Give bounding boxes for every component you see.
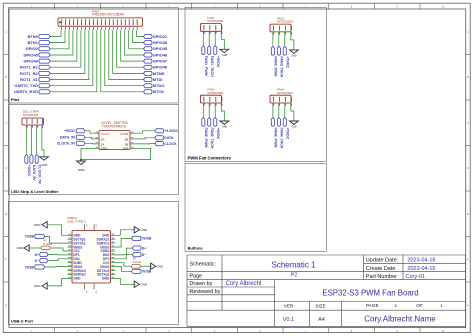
wire GND to R1 xyxy=(28,247,41,249)
pin number xyxy=(96,137,98,139)
svg-text:1: 1 xyxy=(440,303,443,308)
pin name (rotated) xyxy=(278,26,280,31)
svg-text:CLOCK_5V: CLOCK_5V xyxy=(37,165,41,185)
pin number xyxy=(61,27,63,30)
svg-text:B: B xyxy=(467,75,469,79)
pin number xyxy=(85,27,87,30)
label UART0_TXD xyxy=(39,84,50,88)
label CLOCK xyxy=(155,142,164,146)
pin number xyxy=(279,103,281,105)
pin SSRXn2 (left) xyxy=(68,270,73,272)
pin number xyxy=(273,103,275,105)
pin name (rotated) xyxy=(42,119,44,124)
pin stub xyxy=(272,32,274,35)
pin number xyxy=(203,103,205,105)
wire pin14 to MTMS xyxy=(113,30,144,73)
ground top-left xyxy=(42,222,47,228)
pin number xyxy=(215,32,217,34)
svg-text:2023-04-16: 2023-04-16 xyxy=(407,266,435,272)
label FAN4_PWM xyxy=(271,118,274,127)
pin SSRXp1 (right) xyxy=(111,238,116,240)
svg-text:G: G xyxy=(5,303,7,307)
svg-text:GND: GND xyxy=(140,283,148,287)
pin number xyxy=(31,125,33,127)
label GPIO45 xyxy=(39,53,50,57)
pin name (rotated) xyxy=(273,26,275,31)
pin name (rotated) xyxy=(209,97,211,102)
svg-text:CLOCK: CLOCK xyxy=(164,142,177,146)
label GPIO46 xyxy=(39,59,50,63)
label +5VDC xyxy=(283,46,286,55)
svg-text:1B: 1B xyxy=(125,137,129,141)
svg-text:MTMS: MTMS xyxy=(153,71,165,76)
pin VBUS (left) xyxy=(68,246,73,248)
sheet: USB-C Port xyxy=(9,202,179,325)
sheet: LED Strip & Level Shifter xyxy=(9,105,179,195)
wire VBUS2 to VUSB xyxy=(115,267,131,272)
pin stub xyxy=(214,31,216,34)
pin GND (left) xyxy=(68,234,73,236)
pin name (rotated) xyxy=(104,19,106,25)
wire FAN4 pin2 xyxy=(278,106,280,118)
wire pin16 to GPIO47 xyxy=(121,30,144,61)
svg-text:+5VDC: +5VDC xyxy=(285,56,289,68)
svg-text:G: G xyxy=(467,303,469,307)
pin name (rotated) xyxy=(92,19,94,25)
pin number xyxy=(209,32,211,34)
svg-text:MTCK: MTCK xyxy=(153,89,165,94)
wire VBUS to VUSB xyxy=(115,238,131,247)
pin number xyxy=(279,32,281,34)
svg-text:D−: D− xyxy=(35,259,39,263)
pin GND (left) xyxy=(68,277,73,279)
pin stub xyxy=(36,125,38,128)
label CLOCK_5V xyxy=(76,141,85,145)
svg-text:PWM Fan Connectors: PWM Fan Connectors xyxy=(188,156,232,161)
svg-text:D: D xyxy=(467,166,469,170)
wire pin4 to GPIO45 xyxy=(50,30,73,55)
svg-text:Page: Page xyxy=(190,274,203,280)
label GPIO0 xyxy=(39,47,50,51)
pin number xyxy=(128,27,130,30)
ground R1 xyxy=(24,245,29,251)
svg-text:FAN2_TACH: FAN2_TACH xyxy=(210,128,214,149)
label D- (right) xyxy=(132,253,141,257)
svg-text:VCCB: VCCB xyxy=(120,132,128,136)
wire FAN4 pin1 xyxy=(272,106,274,118)
svg-text:GPIO46: GPIO46 xyxy=(23,59,38,64)
wire FAN3 pin3 xyxy=(284,35,286,47)
svg-text:5.11kΩ: 5.11kΩ xyxy=(133,260,142,264)
svg-text:FAN4_TACH: FAN4_TACH xyxy=(279,128,283,149)
svg-text:ESP32-S3 PWM Fan Board: ESP32-S3 PWM Fan Board xyxy=(322,288,418,297)
svg-text:Cory-01: Cory-01 xyxy=(406,274,426,280)
svg-text:FAN4_PWM: FAN4_PWM xyxy=(274,128,278,148)
label GPIO46 xyxy=(144,53,153,57)
wire pin15 to GPIO48 xyxy=(117,30,144,67)
pin number xyxy=(89,27,91,30)
wire 2B to CLOCK xyxy=(135,143,155,145)
wire R1 to CC1 xyxy=(50,248,68,251)
title block xyxy=(187,254,466,256)
wire FAN1 pin1 xyxy=(202,34,204,46)
label FAN1_PWM xyxy=(202,46,205,55)
pin SSTXp2 (right) xyxy=(111,274,116,276)
svg-text:SIZE: SIZE xyxy=(315,303,325,308)
pin stub xyxy=(25,125,27,128)
svg-text:FAN3_PWM: FAN3_PWM xyxy=(274,56,278,76)
ground R2 xyxy=(151,263,156,269)
wire pin9 to UART0_TXD xyxy=(50,30,93,85)
pin DN2 (right) xyxy=(111,254,116,256)
pin name (rotated) xyxy=(203,25,205,30)
svg-text:V0.1: V0.1 xyxy=(283,317,295,323)
pin name (rotated) xyxy=(69,19,71,25)
pin stub xyxy=(41,125,43,128)
pin number xyxy=(96,146,98,148)
wire pin17 to GPIO46 xyxy=(125,30,144,55)
wire DATA_5V to 1A xyxy=(85,137,94,139)
label D+ (right) xyxy=(132,246,141,250)
pin name (rotated) xyxy=(278,97,280,102)
label DATA xyxy=(155,136,164,140)
svg-text:D: D xyxy=(5,166,7,170)
svg-text:VER: VER xyxy=(284,303,294,308)
svg-text:GND: GND xyxy=(73,277,81,281)
pin SSTXn1 (left) xyxy=(68,242,73,244)
svg-text:GPIO0: GPIO0 xyxy=(26,46,39,51)
svg-text:+5VDC: +5VDC xyxy=(216,128,220,140)
pin VBUS (left) xyxy=(68,266,73,268)
pin name (rotated) xyxy=(36,119,38,124)
wire pin18 to GPIO45 xyxy=(129,30,144,49)
pin number xyxy=(26,125,28,127)
svg-text:GPIO45: GPIO45 xyxy=(23,52,38,57)
svg-text:GND: GND xyxy=(78,168,86,172)
svg-text:ROT1_S1: ROT1_S1 xyxy=(20,77,39,82)
svg-text:0470531000: 0470531000 xyxy=(277,20,293,24)
wire LED pin3 xyxy=(36,128,38,155)
pin stub xyxy=(31,125,33,128)
svg-text:D+: D+ xyxy=(142,246,146,250)
svg-text:BTN1: BTN1 xyxy=(27,40,38,45)
wire FAN3 pin2 xyxy=(278,35,280,47)
pin number xyxy=(96,27,98,30)
svg-text:+5VDC: +5VDC xyxy=(216,56,220,68)
pin SSRXn1 (right) xyxy=(111,242,116,244)
svg-text:B: B xyxy=(5,75,7,79)
pin number xyxy=(273,32,275,34)
ground FAN1 xyxy=(220,49,229,52)
svg-text:GPIO38: GPIO38 xyxy=(153,40,168,45)
pin name (rotated) xyxy=(128,19,130,25)
svg-text:GND: GND xyxy=(222,55,227,57)
pin number xyxy=(285,103,287,105)
wire FAN1 pin3 xyxy=(214,34,216,46)
svg-text:1A: 1A xyxy=(101,137,105,141)
wire DP2 to D+ xyxy=(115,248,132,259)
pin number xyxy=(96,142,98,144)
wire FAN3 pin1 xyxy=(272,35,274,47)
wire VUSB to VBUS2 xyxy=(45,266,68,268)
label GPIO45 xyxy=(144,47,153,51)
label MTCK xyxy=(144,90,153,94)
svg-text:C: C xyxy=(5,121,7,125)
pin name (rotated) xyxy=(124,19,126,25)
pin name (rotated) xyxy=(221,97,223,102)
label FAN3_PWM xyxy=(271,46,274,55)
label MTDI xyxy=(144,78,153,82)
wire R2 to GND xyxy=(140,265,152,267)
svg-text:+5VDC: +5VDC xyxy=(27,165,31,177)
pin name (rotated) xyxy=(112,19,114,25)
svg-text:FAN1_PWM: FAN1_PWM xyxy=(204,56,208,76)
svg-text:GPIO21: GPIO21 xyxy=(153,34,168,39)
svg-text:OF: OF xyxy=(416,303,423,308)
wire pin19 to GPIO38 xyxy=(133,30,144,42)
pin name (rotated) xyxy=(120,19,122,25)
label GPIO38 xyxy=(144,41,153,45)
pin stub xyxy=(95,138,100,140)
wire FAN2 pin1 xyxy=(202,106,204,118)
wire D- to DN1 xyxy=(48,259,67,261)
svg-text:Drawn by: Drawn by xyxy=(190,281,213,287)
svg-text:GND: GND xyxy=(292,127,297,129)
svg-text:FAN3_TACH: FAN3_TACH xyxy=(279,56,283,77)
wire LED pin1 xyxy=(25,128,27,155)
pin stub xyxy=(272,103,274,106)
svg-text:Part Number: Part Number xyxy=(366,274,397,280)
ground FAN3 xyxy=(290,50,299,53)
svg-text:A: A xyxy=(5,30,7,34)
sheet: Buttons xyxy=(185,164,326,252)
wire FAN2 pin2 xyxy=(208,106,210,118)
svg-text:0470531000: 0470531000 xyxy=(23,113,39,117)
svg-text:GND: GND xyxy=(222,127,227,129)
label DATA_5V xyxy=(76,135,85,139)
pin name (rotated) xyxy=(203,97,205,102)
label +3.3VDC xyxy=(155,129,164,133)
pin number xyxy=(291,32,293,34)
ground top-right xyxy=(134,227,139,233)
label +5VDC xyxy=(214,46,217,55)
pin stub xyxy=(202,103,204,106)
pin stub xyxy=(95,132,100,134)
svg-text:Buttons: Buttons xyxy=(188,246,204,251)
wire GND bottom-right xyxy=(115,278,135,284)
pin stub xyxy=(95,143,100,145)
pin name (rotated) xyxy=(284,97,286,102)
ground bottom-left xyxy=(42,283,47,289)
pin stub xyxy=(220,31,222,34)
wire FAN1 pin4 to GND xyxy=(221,34,224,49)
wire DIR to GND net xyxy=(81,148,151,159)
label FAN2_TACH xyxy=(208,118,211,127)
svg-text:MTDI: MTDI xyxy=(153,77,163,82)
pin number xyxy=(92,27,94,30)
wire pin13 to MTDI xyxy=(109,30,144,79)
svg-text:GND: GND xyxy=(41,163,47,167)
svg-text:Pins: Pins xyxy=(11,97,20,102)
pin VBUS (right) xyxy=(111,246,116,248)
pin stub xyxy=(202,31,204,34)
svg-text:DIR: DIR xyxy=(123,146,129,150)
pin name (rotated) xyxy=(215,25,217,30)
svg-text:GND: GND xyxy=(140,228,148,232)
svg-text:A: A xyxy=(467,30,469,34)
svg-text:+5VDC: +5VDC xyxy=(285,128,289,140)
wire pin3 to GPIO0 xyxy=(50,30,69,49)
svg-text:GND: GND xyxy=(101,146,109,150)
svg-text:UART0_TXD: UART0_TXD xyxy=(14,83,38,88)
svg-text:C: C xyxy=(467,121,469,125)
svg-text:MTDO: MTDO xyxy=(153,83,165,88)
svg-text:GND: GND xyxy=(17,246,25,250)
svg-text:UART0_RXD: UART0_RXD xyxy=(14,89,38,94)
svg-text:VUSB: VUSB xyxy=(25,235,35,239)
svg-text:LED Strip & Level Shifter: LED Strip & Level Shifter xyxy=(11,189,59,194)
pin name (rotated) xyxy=(209,25,211,30)
pin number xyxy=(136,27,138,30)
pin number xyxy=(42,125,44,127)
wire pin7 to ROT1_B2 xyxy=(50,30,85,73)
pin SUB1 (left) xyxy=(68,262,73,264)
pin GND (right) xyxy=(111,234,116,236)
ground FAN4 xyxy=(290,121,299,124)
pin name (rotated) xyxy=(132,19,134,25)
pin stub xyxy=(95,147,100,149)
label DATA_5V xyxy=(30,155,33,164)
svg-text:DATA_5V: DATA_5V xyxy=(60,136,76,140)
pin number xyxy=(112,27,114,30)
label VUSB (left upper) xyxy=(35,234,45,238)
label FAN1_TACH xyxy=(208,46,211,55)
svg-text:Reviewed by: Reviewed by xyxy=(190,289,221,295)
pin number xyxy=(221,103,223,105)
label BTN0 xyxy=(39,35,50,39)
svg-text:VUSB: VUSB xyxy=(142,237,152,241)
wire D+ to DP1 xyxy=(48,254,67,256)
pin stub xyxy=(278,103,280,106)
pin stub xyxy=(284,32,286,35)
svg-text:E: E xyxy=(5,212,7,216)
label MTMS xyxy=(144,71,153,75)
svg-text:GPIO48: GPIO48 xyxy=(153,65,168,70)
pin number xyxy=(37,125,39,127)
pin number xyxy=(108,27,110,30)
wire GND pin down xyxy=(81,148,95,161)
svg-text:GPIO45: GPIO45 xyxy=(153,46,168,51)
svg-text:DATA: DATA xyxy=(164,136,174,140)
label FAN2_PWM xyxy=(202,118,205,127)
svg-text:P2: P2 xyxy=(291,273,298,279)
svg-text:GPIO46: GPIO46 xyxy=(153,52,168,57)
wire pin12 to MTDO xyxy=(105,30,144,85)
svg-text:BTN0: BTN0 xyxy=(27,34,38,39)
pin number xyxy=(116,27,118,30)
pin name (rotated) xyxy=(89,19,91,25)
pin name (rotated) xyxy=(85,19,87,25)
label UART0_RXD xyxy=(39,90,50,94)
svg-text:VCCA: VCCA xyxy=(101,132,109,136)
pin number xyxy=(209,103,211,105)
svg-text:TXAXP2T84DCH: TXAXP2T84DCH xyxy=(102,125,127,129)
svg-text:VUSB: VUSB xyxy=(25,265,35,269)
pin DP2 (right) xyxy=(111,258,116,260)
svg-text:1: 1 xyxy=(394,303,397,308)
pin number xyxy=(104,27,106,30)
wire CC2 to R2 xyxy=(115,263,131,267)
label ROT1_S1 xyxy=(39,78,50,82)
pin name (rotated) xyxy=(81,19,83,25)
wire FAN2 pin4 to GND xyxy=(221,106,224,121)
ground level shifter xyxy=(77,161,86,164)
svg-text:D−: D− xyxy=(142,253,146,257)
sheet: Pins xyxy=(9,8,179,104)
label VUSB (right upper) xyxy=(131,236,141,240)
label VUSB (left lower) xyxy=(35,265,45,269)
pin stub xyxy=(214,103,216,106)
pin stub xyxy=(208,31,210,34)
label BTN1 xyxy=(39,41,50,45)
pin number xyxy=(203,32,205,34)
pin SUB2 (right) xyxy=(111,250,116,252)
svg-text:Update Date: Update Date xyxy=(366,258,397,264)
pin name (rotated) xyxy=(31,119,33,124)
svg-text:DATA_5V: DATA_5V xyxy=(32,165,36,181)
pin CC2 (right) xyxy=(111,262,116,264)
svg-text:GND: GND xyxy=(292,56,297,58)
wire FAN2 pin3 xyxy=(214,106,216,118)
pin DP1 (left) xyxy=(68,254,73,256)
pin name (rotated) xyxy=(61,19,63,25)
label +5VDC xyxy=(76,129,85,133)
pin VBUS (right) xyxy=(111,266,116,268)
wire DN2 to D- xyxy=(115,254,132,256)
ground FAN2 xyxy=(220,121,229,124)
pin name (rotated) xyxy=(290,26,292,31)
wire pin5 to GPIO46 xyxy=(50,30,77,61)
pin number xyxy=(77,27,79,30)
svg-text:E: E xyxy=(467,212,469,216)
wire pin6 to ROT1_B1 xyxy=(50,30,81,67)
pin name (rotated) xyxy=(65,19,67,25)
wire VUSB to VBUS xyxy=(45,236,68,243)
svg-text:0470531000: 0470531000 xyxy=(207,91,223,95)
label +5VDC xyxy=(283,118,286,127)
pin SSRXp2 (left) xyxy=(68,274,73,276)
pin number xyxy=(124,27,126,30)
wire FAN4 pin4 to GND xyxy=(291,106,294,121)
svg-text:+5VDC: +5VDC xyxy=(64,129,76,133)
wire LED pin2 xyxy=(31,128,33,155)
pin number xyxy=(132,27,134,30)
svg-text:USB_TYPE-C: USB_TYPE-C xyxy=(67,220,87,224)
pin CC1 (left) xyxy=(68,250,73,252)
svg-text:GND: GND xyxy=(34,284,42,288)
wire GND top-right xyxy=(115,230,135,236)
svg-text:A4: A4 xyxy=(318,317,325,323)
shield pins top xyxy=(84,224,86,231)
svg-text:X4611WV-20I-C28D40: X4611WV-20I-C28D40 xyxy=(92,13,124,17)
pin stub xyxy=(290,103,292,106)
pin number xyxy=(73,27,75,30)
svg-text:FAN1_TACH: FAN1_TACH xyxy=(210,56,214,77)
svg-text:D+: D+ xyxy=(35,253,39,257)
svg-text:GND: GND xyxy=(157,264,165,268)
pin name (rotated) xyxy=(116,19,118,25)
svg-text:ROT1_B1: ROT1_B1 xyxy=(20,65,39,70)
